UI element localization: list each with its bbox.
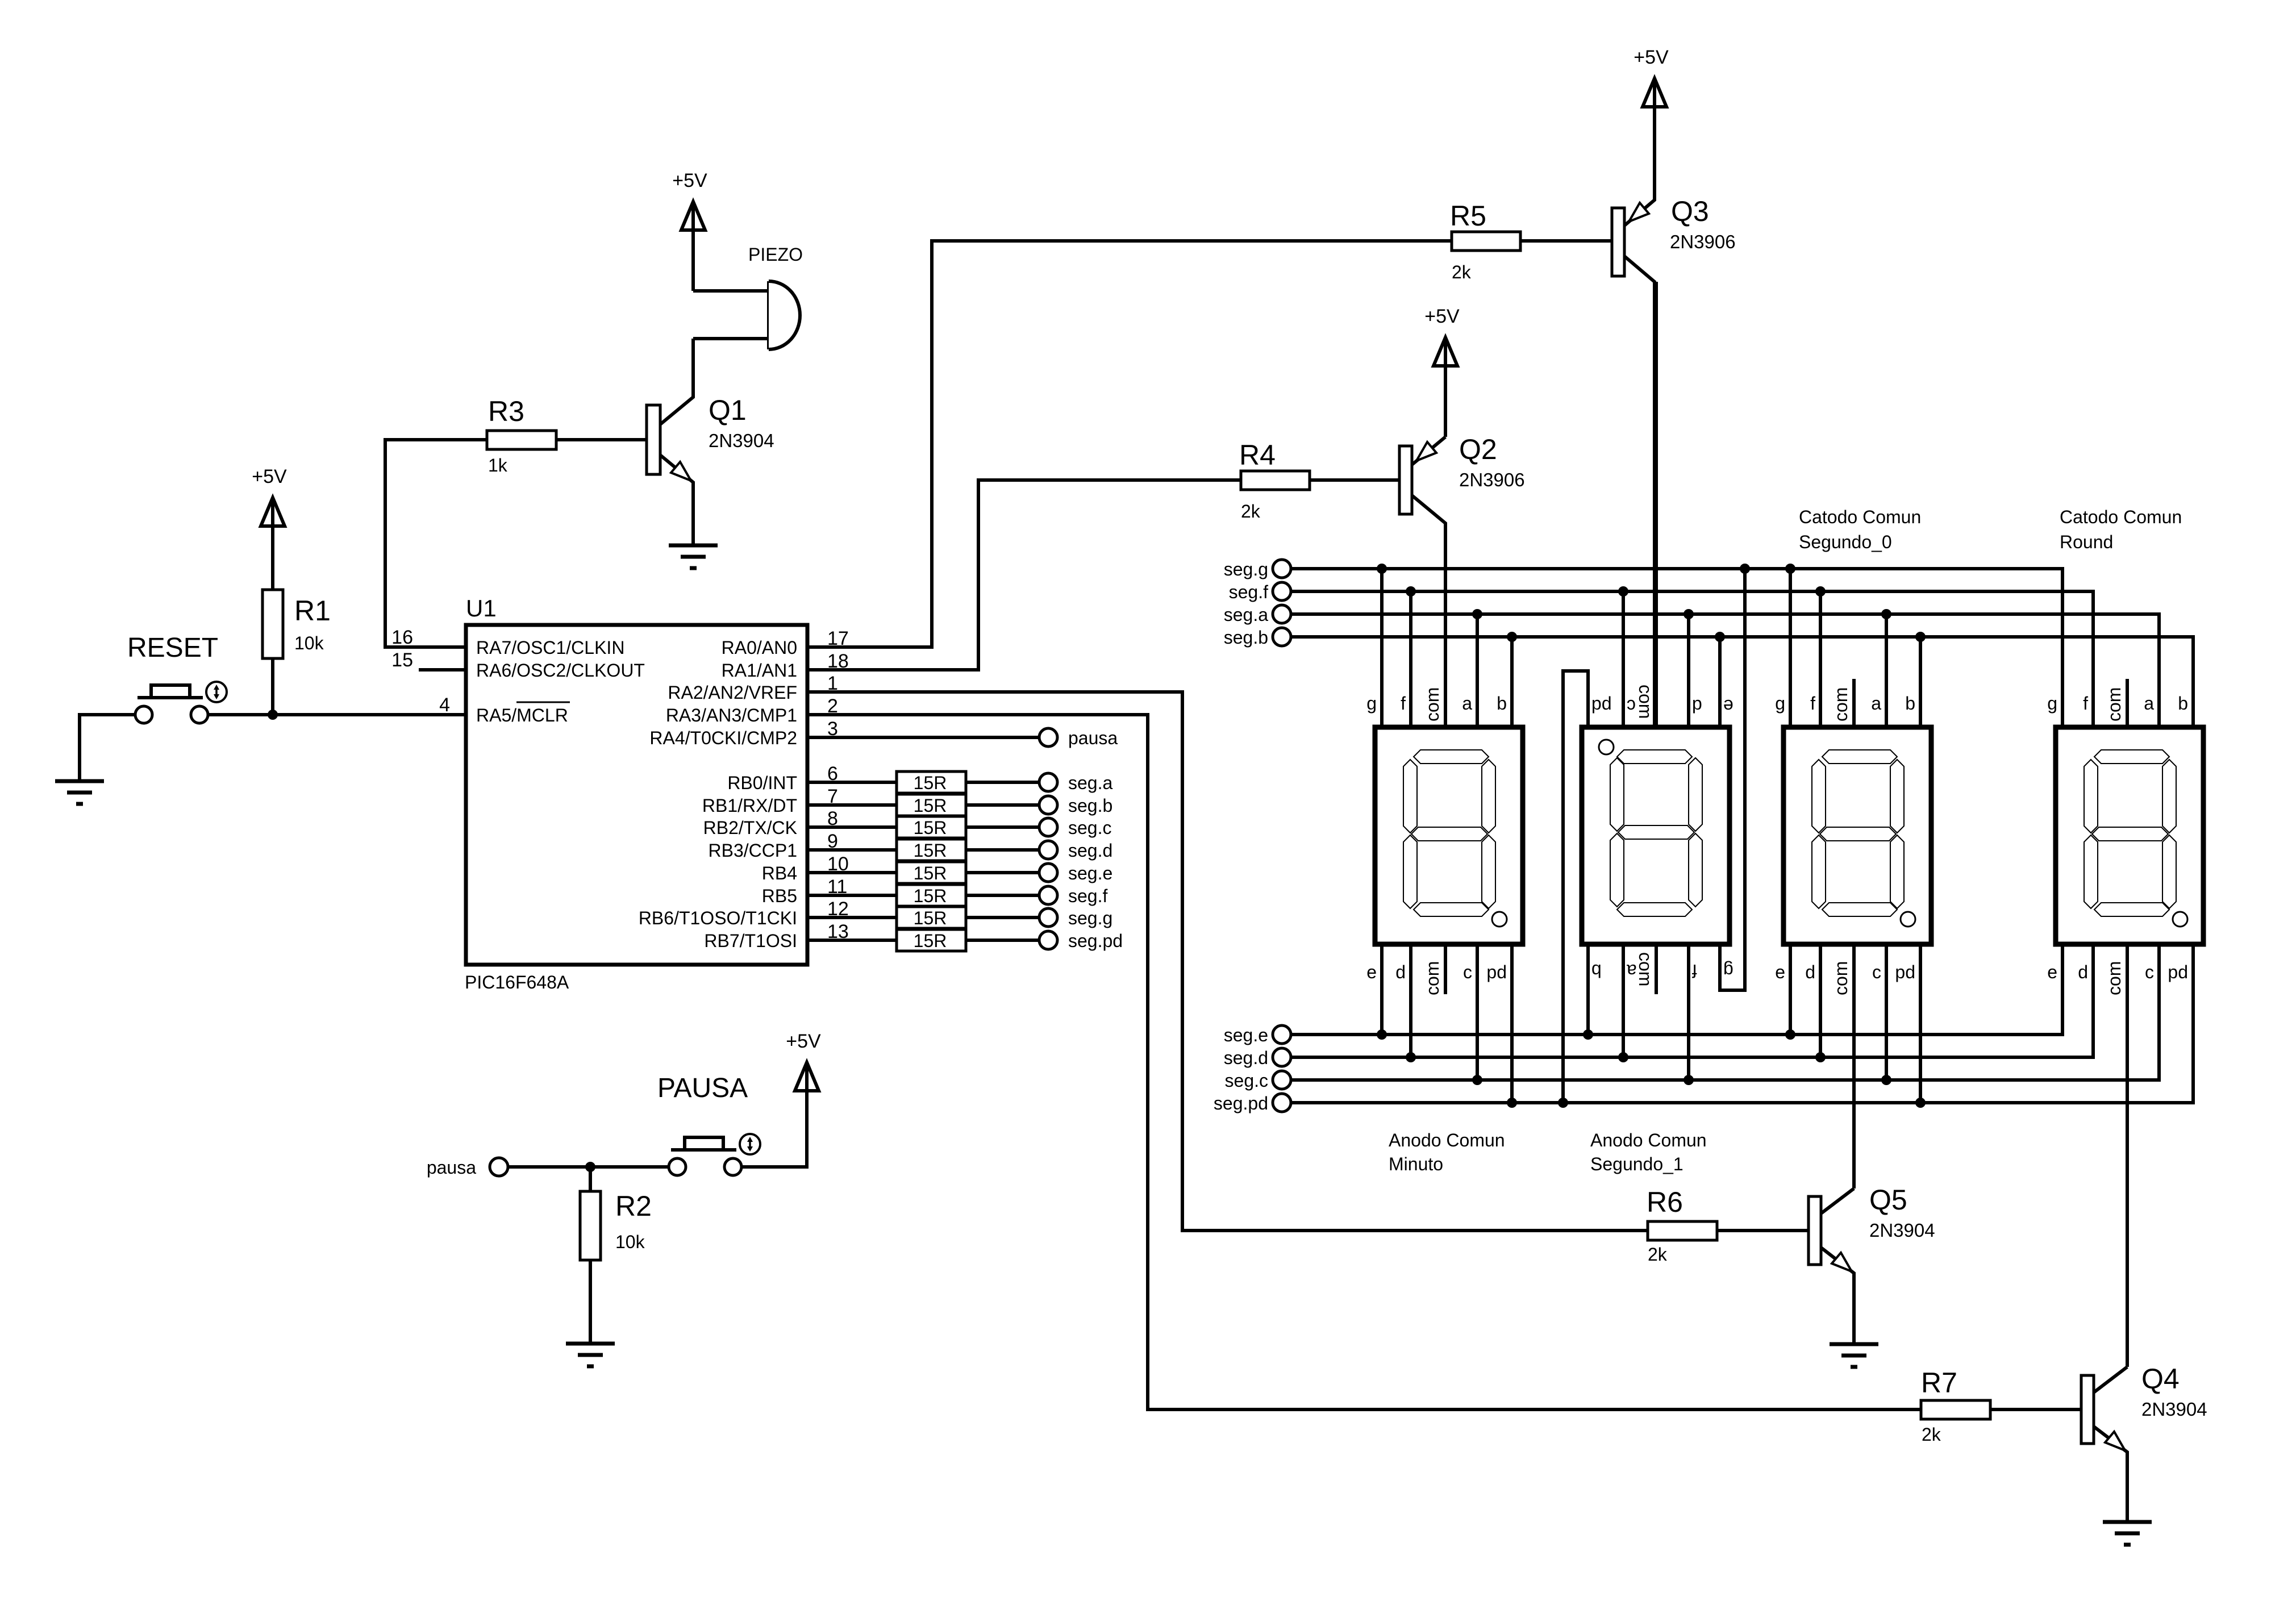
svg-text:15R: 15R [914,908,947,928]
svg-text:U1: U1 [466,595,497,622]
wire 15R to seg.g connector [966,916,1039,919]
node seg.d output connector [1039,840,1112,861]
svg-text:f: f [1401,693,1406,714]
svg-text:g: g [1366,693,1377,714]
wire R3 to Q1 base [556,438,647,441]
wire DISP2 a pin [1622,944,1625,1057]
svg-text:seg.g: seg.g [1068,908,1112,928]
wire R5 to Q3 base [1520,239,1612,243]
svg-text:15R: 15R [914,931,947,951]
svg-text:f: f [2083,693,2088,714]
svg-text:com: com [1831,961,1851,995]
wire DISP1 e pin [1380,944,1384,1035]
node junction (3204,1861) [1815,1052,1826,1062]
node seg.pd output connector [1039,931,1123,951]
svg-text:com: com [1635,952,1656,986]
pin 9 number [827,831,838,852]
svg-text:seg.g: seg.g [1224,559,1268,579]
pin 11 number [827,876,847,898]
wire DISP3 e pin [1789,944,1792,1035]
wire 15R to seg.a connector [966,781,1039,784]
svg-text:seg.b: seg.b [1224,627,1268,648]
resistor 15R (seg.f) [897,885,966,906]
ground (Q4 emitter) [2103,1522,2152,1545]
wire pin 1 RA2 to R6 [807,692,1648,1231]
svg-text:+5V: +5V [1424,306,1460,327]
wire DISP2 f pin [1687,944,1690,1080]
svg-text:2k: 2k [1452,262,1472,282]
node junction (2661,1941) [1507,1098,1517,1108]
transistor Q3 2N3906 [1612,109,1736,727]
node seg.a bus connector [1224,604,1291,625]
svg-text:2k: 2k [1922,1424,1941,1445]
wire RESET to pin 4 RA5/MCLR [209,713,466,716]
node junction (3320,1081) [1881,609,1891,619]
svg-text:pausa: pausa [1068,728,1118,748]
svg-text:R4: R4 [1239,439,1276,471]
power +5V (PAUSA supply) [786,1031,821,1167]
svg-text:g: g [1723,961,1734,981]
svg-text:15R: 15R [914,773,947,793]
svg-text:PAUSA: PAUSA [657,1073,748,1103]
svg-text:seg.c: seg.c [1225,1070,1268,1091]
node junction (2795,1821) [1583,1029,1593,1040]
svg-text:R6: R6 [1647,1186,1683,1218]
svg-text:pd: pd [1486,962,1507,982]
node seg.e bus connector [1224,1025,1291,1045]
wire seg.pd bus [1291,944,2193,1103]
svg-text:RB0/INT: RB0/INT [727,773,797,793]
label Anodo Comun Minuto [1389,1130,1505,1174]
svg-text:g: g [2047,693,2057,714]
svg-text:15R: 15R [914,818,947,838]
svg-text:seg.e: seg.e [1068,863,1112,883]
node junction (2483,1041) [1406,586,1416,597]
svg-text:a: a [2144,693,2154,714]
node seg.d bus connector [1224,1048,1291,1068]
svg-text:com: com [1422,961,1443,995]
node junction (2857,1041) [1618,586,1628,597]
wire seg.d bus [1291,944,2093,1057]
node junction (2600,1081) [1472,609,1482,619]
wire seg.c bus [1291,944,2159,1080]
wire DISP3 pd pin [1919,944,1922,1103]
wire DISP1 com top pin to Q2 [1444,523,1447,727]
svg-text:c: c [1627,696,1636,716]
wire seg.e bus [1291,944,2062,1035]
svg-text:+5V: +5V [672,170,707,191]
svg-text:RB2/TX/CK: RB2/TX/CK [703,818,797,838]
pin 1 number [827,673,838,694]
wire R3 to pin 16 RA7 [385,440,487,647]
svg-text:com: com [2104,961,2124,995]
node seg.b bus connector [1224,627,1291,648]
node junction (2857,1861) [1618,1052,1628,1062]
svg-text:b: b [1905,693,1915,714]
svg-text:seg.e: seg.e [1224,1025,1268,1045]
node seg.c output connector [1039,818,1111,838]
wire pin RB4 to 15R [807,871,897,874]
svg-text:Catodo Comun: Catodo Comun [2060,507,2182,527]
wire DISP2 pd pin bypass to seg.pd [1563,671,1588,1103]
op-amp U1 PIC16F648A microcontroller [465,595,807,992]
resistor R4 2k [1239,439,1310,522]
display DISP2 pin labels [1591,685,1734,986]
node junction (2432,1821) [1377,1029,1387,1040]
svg-text:seg.f: seg.f [1229,582,1268,602]
svg-text:Round: Round [2060,532,2113,552]
node junction (3151,1821) [1785,1029,1795,1040]
pushbutton RESET [127,633,227,723]
svg-text:2N3904: 2N3904 [2141,1399,2207,1420]
svg-text:Q4: Q4 [2141,1363,2180,1395]
svg-text:com: com [1635,685,1656,719]
svg-text:Q5: Q5 [1869,1184,1907,1216]
wire PAUSA to +5V [741,1090,807,1167]
svg-text:e: e [2047,962,2057,982]
node seg.f bus connector [1229,582,1291,602]
pin 8 number [827,808,838,829]
svg-text:RA4/T0CKI/CMP2: RA4/T0CKI/CMP2 [649,728,797,748]
wire 15R to seg.b connector [966,803,1039,807]
svg-text:Catodo Comun: Catodo Comun [1799,507,1921,527]
svg-text:pd: pd [1895,962,1915,982]
svg-text:RB5: RB5 [762,886,797,906]
node R1/RESET/RA5 junction [268,710,278,720]
svg-text:RA0/AN0: RA0/AN0 [722,637,797,658]
wire pin 17 RA0 to R5 [807,241,1452,647]
svg-text:com: com [1422,687,1443,721]
svg-text:15R: 15R [914,863,947,883]
transistor Q4 2N3904 [2081,1363,2207,1522]
display DISP3 Catodo Comun Segundo_0 [1784,727,1931,944]
svg-text:seg.f: seg.f [1068,886,1107,906]
wire DISP2 c pin [1622,591,1625,727]
svg-text:RA5/MCLR: RA5/MCLR [476,705,568,725]
node seg.pd bus connector [1214,1093,1291,1113]
svg-text:com: com [1831,687,1851,721]
svg-text:2N3906: 2N3906 [1670,231,1736,252]
resistor R7 2k [1921,1367,1990,1445]
transistor Q1 2N3904 [647,339,774,545]
svg-text:15R: 15R [914,886,947,906]
svg-text:f: f [1810,693,1815,714]
label Catodo Comun Round [2060,507,2182,552]
node seg.g bus connector [1224,559,1291,579]
node junction (2972,1901) [1684,1075,1694,1085]
resistor R6 2k [1647,1186,1717,1265]
display DISP2 Anodo Comun Segundo_1 (rotated) [1582,727,1730,944]
svg-text:RA6/OSC2/CLKOUT: RA6/OSC2/CLKOUT [476,660,645,681]
pin 6 number [827,763,838,785]
node junction (3380,1941) [1915,1098,1926,1108]
wire seg.a bus [1291,614,2159,727]
svg-text:+5V: +5V [786,1031,821,1052]
svg-text:seg.a: seg.a [1068,773,1112,793]
node junction (3071,1001) [1740,564,1750,574]
svg-text:10k: 10k [294,633,324,653]
power +5V (Q1 collector supply) [672,170,707,291]
pin 7 number [827,786,838,807]
svg-text:Anodo Comun: Anodo Comun [1389,1130,1505,1150]
wire pin RB5 to 15R [807,894,897,897]
svg-text:4: 4 [439,694,450,716]
svg-text:c: c [1463,962,1472,982]
svg-text:Q3: Q3 [1671,195,1709,227]
svg-text:seg.pd: seg.pd [1214,1093,1268,1113]
pin 15 stub wire [419,668,466,672]
pin 17 number [827,628,849,649]
wire 15R to seg.e connector [966,871,1039,874]
wire R4 to Q2 base [1310,478,1399,482]
svg-text:pausa: pausa [427,1157,476,1178]
piezo PIEZO [693,244,803,349]
node junction (3027,1121) [1715,632,1725,642]
wire pin 2 RA3 to R7 [807,715,1921,1409]
node junction (2483,1861) [1406,1052,1416,1062]
resistor R1 10k [262,590,331,658]
display DISP1 Anodo Comun Minuto [1375,727,1523,944]
wire seg.b bus [1291,637,2193,727]
pin 4 number [439,694,450,716]
svg-text:a: a [1462,693,1472,714]
svg-text:Q1: Q1 [709,394,747,426]
svg-text:+5V: +5V [1634,47,1669,68]
wire DISP1 b pin [1510,637,1514,727]
wire 15R to seg.d connector [966,848,1039,852]
svg-text:d: d [2078,962,2088,982]
wire DISP1 pd pin [1510,944,1514,1103]
svg-text:RB7/T1OSI: RB7/T1OSI [704,931,797,951]
wire DISP3 c pin [1885,944,1888,1080]
resistor R5 2k [1450,200,1520,282]
wire DISP1 a pin [1476,614,1479,727]
svg-text:R3: R3 [488,395,524,427]
svg-text:2k: 2k [1241,501,1261,522]
svg-text:RB4: RB4 [762,863,797,883]
svg-text:seg.d: seg.d [1224,1048,1268,1068]
svg-text:15R: 15R [914,795,947,816]
svg-text:e: e [1723,696,1734,716]
node seg.c bus connector [1225,1070,1291,1091]
svg-text:seg.d: seg.d [1068,840,1112,861]
ground (Q5 emitter) [1830,1344,1878,1367]
svg-text:R1: R1 [294,595,331,627]
wire DISP1 c pin [1476,944,1479,1080]
wire DISP3 com bottom pin to Q5 [1852,944,1856,1188]
resistor 15R (seg.d) [897,839,966,861]
wire R2 to ground [589,1260,592,1344]
svg-text:d: d [1805,962,1815,982]
wire 15R to seg.f connector [966,894,1039,897]
wire pin RB3 to 15R [807,848,897,852]
svg-text:c: c [1872,962,1881,982]
wire DISP2 com bottom stub [1655,944,1658,994]
display DISP4 pin labels [2047,687,2188,995]
wire pausa junction to R2 [589,1167,592,1191]
pin 13 number [827,921,849,942]
svg-text:pd: pd [2168,962,2188,982]
svg-text:Segundo_0: Segundo_0 [1799,532,1892,552]
resistor R3 1k [487,395,556,476]
svg-text:e: e [1775,962,1785,982]
svg-text:RB3/CCP1: RB3/CCP1 [709,840,798,861]
svg-text:Minuto: Minuto [1389,1154,1443,1174]
wire DISP2 d pin [1687,614,1690,727]
wire pin 3 RA4 pausa [807,736,1039,739]
node pausa/R2 junction [585,1162,595,1172]
wire DISP3 b pin [1919,637,1922,727]
wire pin RB2 to 15R [807,825,897,829]
svg-text:RB6/T1OSO/T1CKI: RB6/T1OSO/T1CKI [639,908,797,928]
svg-text:pd: pd [1591,696,1612,716]
wire DISP2 com top pin to Q3 [1655,282,1658,727]
label Catodo Comun Segundo_0 [1799,507,1921,552]
wire R7 to Q4 base [1990,1408,2081,1411]
pin 2 number [827,695,838,717]
svg-text:e: e [1366,962,1377,982]
svg-text:RESET: RESET [127,633,218,663]
wire pin RB0 to 15R [807,781,897,784]
label Anodo Comun Segundo_1 [1590,1130,1707,1174]
svg-text:c: c [2145,962,2154,982]
node junction (2661,1121) [1507,632,1517,642]
svg-text:RA2/AN2/VREF: RA2/AN2/VREF [668,682,797,703]
svg-text:com: com [2104,687,2124,721]
svg-text:RA3/AN3/CMP1: RA3/AN3/CMP1 [666,705,797,725]
svg-text:d: d [1692,696,1702,716]
wire seg.g bus [1291,569,2062,727]
svg-text:seg.a: seg.a [1224,604,1268,625]
wire RESET to ground [80,715,135,781]
svg-text:15R: 15R [914,840,947,861]
node junction (2600,1901) [1472,1075,1482,1085]
wire pin RB7 to 15R [807,939,897,942]
svg-text:seg.c: seg.c [1068,818,1111,838]
svg-text:RB1/RX/DT: RB1/RX/DT [702,795,797,816]
pin 15 number [391,649,413,671]
svg-text:R7: R7 [1921,1367,1957,1399]
wire DISP1 f pin [1409,591,1412,727]
wire 15R to seg.c connector [966,825,1039,829]
pushbutton PAUSA [657,1073,760,1175]
wire DISP2 g pin bypass to seg.g [1720,569,1745,990]
wire 15R to seg.pd connector [966,939,1039,942]
svg-text:10k: 10k [615,1232,645,1252]
node seg.e output connector [1039,863,1112,883]
svg-text:b: b [2178,693,2188,714]
transistor Q2 2N3906 [1399,433,1525,727]
node pausa input connector [427,1157,508,1178]
wire seg.f bus [1291,591,2093,727]
wire R6 to Q5 base [1717,1229,1809,1232]
svg-text:R2: R2 [615,1190,652,1222]
svg-text:2N3904: 2N3904 [1869,1220,1935,1241]
resistor 15R (seg.e) [897,862,966,883]
svg-text:RA1/AN1: RA1/AN1 [722,660,797,681]
wire DISP3 d pin [1819,944,1822,1057]
display DISP3 pin labels [1775,687,1915,995]
resistor 15R (seg.c) [897,816,966,838]
svg-text:Q2: Q2 [1459,433,1497,465]
pin 16 number [391,627,413,648]
node junction (2751,1941) [1558,1098,1568,1108]
power +5V (Q3 emitter supply) [1634,47,1669,200]
svg-text:RA7/OSC1/CLKIN: RA7/OSC1/CLKIN [476,637,624,658]
wire DISP4 com top stub [2126,679,2129,727]
node junction (3204,1041) [1815,586,1826,597]
svg-text:15: 15 [391,649,413,671]
wire pin RB6 to 15R [807,916,897,919]
svg-text:R5: R5 [1450,200,1486,232]
svg-text:Anodo Comun: Anodo Comun [1590,1130,1707,1150]
wire DISP2 e pin [1718,637,1722,727]
wire DISP2 b pin [1586,944,1590,1035]
wire R1 to RA5 net [271,658,274,715]
node junction (3320,1901) [1881,1075,1891,1085]
node junction (3151,1001) [1785,564,1795,574]
power +5V (R1 pull-up supply) [252,466,287,590]
node seg.g output connector [1039,908,1112,928]
node junction (2432,1001) [1377,564,1387,574]
svg-text:d: d [1395,962,1406,982]
wire DISP1 com bottom stub [1444,944,1447,994]
wire DISP4 com bottom pin to Q4 [2126,944,2129,1367]
display DISP4 Catodo Comun Round [2056,727,2203,944]
node junction (2972,1081) [1684,609,1694,619]
transistor Q5 2N3904 [1809,1184,1935,1344]
svg-text:+5V: +5V [252,466,287,487]
wire DISP1 g pin [1380,569,1384,727]
svg-text:b: b [1497,693,1507,714]
svg-text:16: 16 [391,627,413,648]
svg-text:f: f [1692,961,1697,981]
ground (Q1 emitter) [669,545,718,568]
pin 18 number [827,650,849,672]
svg-text:Segundo_1: Segundo_1 [1590,1154,1684,1174]
svg-text:seg.pd: seg.pd [1068,931,1123,951]
svg-text:2N3904: 2N3904 [709,430,774,451]
node junction (3380,1121) [1915,632,1926,642]
wire DISP3 a pin [1885,614,1888,727]
resistor 15R (seg.a) [897,771,966,793]
svg-text:b: b [1591,961,1602,981]
node seg.b output connector [1039,795,1112,816]
svg-text:g: g [1775,693,1785,714]
wire pausa to switch [508,1165,669,1169]
resistor 15R (seg.pd) [897,929,966,951]
svg-text:seg.b: seg.b [1068,795,1112,816]
node seg.a output connector [1039,773,1112,793]
pin 10 number [827,853,849,875]
svg-text:a: a [1871,693,1881,714]
svg-text:PIC16F648A: PIC16F648A [465,972,569,992]
pin 12 number [827,898,849,920]
node seg.f output connector [1039,886,1107,906]
wire pin 18 RA1 to R4 [807,480,1241,670]
wire DISP3 f pin [1819,591,1822,727]
svg-text:2k: 2k [1648,1244,1668,1265]
resistor R2 10k [580,1190,652,1260]
svg-text:1k: 1k [488,455,508,476]
wire DISP3 g pin [1789,569,1792,727]
wire pin RB1 to 15R [807,803,897,807]
svg-text:2N3906: 2N3906 [1459,469,1525,490]
pin 3 number [827,718,838,740]
ground (R2) [566,1344,615,1366]
node pausa connector (pin 3) [1039,728,1118,748]
wire DISP1 d pin [1409,944,1412,1057]
